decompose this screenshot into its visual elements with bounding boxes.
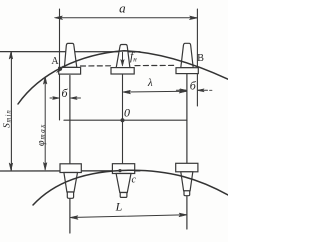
support axis A lower: [69, 199, 71, 234]
support axis B upper: [186, 74, 188, 164]
svg-text:б: б: [190, 78, 197, 92]
contact wire arc bottom span: [33, 170, 228, 205]
svg-text:A: A: [51, 56, 59, 67]
svg-text:L: L: [115, 200, 123, 214]
insulator bottom center: [112, 164, 134, 198]
support axis B lower: [186, 196, 188, 230]
arrow a left: [55, 16, 63, 20]
svg-text:φmax: φmax: [36, 123, 47, 146]
arrow lambda right: [179, 89, 187, 93]
svg-text:a: a: [119, 1, 126, 16]
extension line right: [196, 9, 198, 106]
svg-text:Smin: Smin: [3, 109, 13, 128]
junction dot at 0: [121, 118, 125, 122]
support axis A upper: [69, 76, 71, 164]
contact wire arc top span: [18, 51, 228, 104]
dimension lambda line: [123, 90, 187, 93]
dimension b left: outside arrows: [50, 97, 59, 99]
svg-text:0: 0: [124, 106, 130, 120]
track axis line top: [0, 51, 140, 53]
svg-text:б: б: [61, 86, 68, 100]
extension line left (through A): [59, 9, 61, 120]
arrow L left: [70, 216, 78, 220]
S min dimension line: [10, 53, 12, 171]
insulator bottom right: [176, 163, 198, 195]
arrow lambda left: [123, 90, 131, 94]
svg-text:fн: fн: [130, 51, 137, 64]
chord A-B dashed right segment: [135, 64, 176, 66]
dimension a line: [60, 17, 198, 19]
dimension L line: [70, 215, 187, 218]
insulator top B: [176, 43, 198, 73]
arrow L right: [179, 213, 187, 217]
dimension b right: outside arrows: [176, 89, 186, 91]
point c dot: [118, 169, 121, 172]
svg-text:c: c: [132, 175, 137, 186]
insulator top A: [59, 43, 81, 74]
f_n sag arrow: [122, 52, 124, 64]
insulator bottom left: [60, 164, 81, 199]
arrow a right: [190, 16, 198, 20]
chord A-B dashed left segment: [81, 65, 111, 67]
svg-text:B: B: [197, 53, 204, 64]
support axis center: [122, 74, 124, 164]
svg-text:λ: λ: [147, 77, 153, 89]
phi max dimension line: [44, 78, 46, 170]
center horizontal midline: [64, 119, 187, 121]
point A blob on wire: [57, 67, 63, 73]
insulator top center: [111, 45, 134, 75]
bottom support line: [0, 170, 140, 172]
